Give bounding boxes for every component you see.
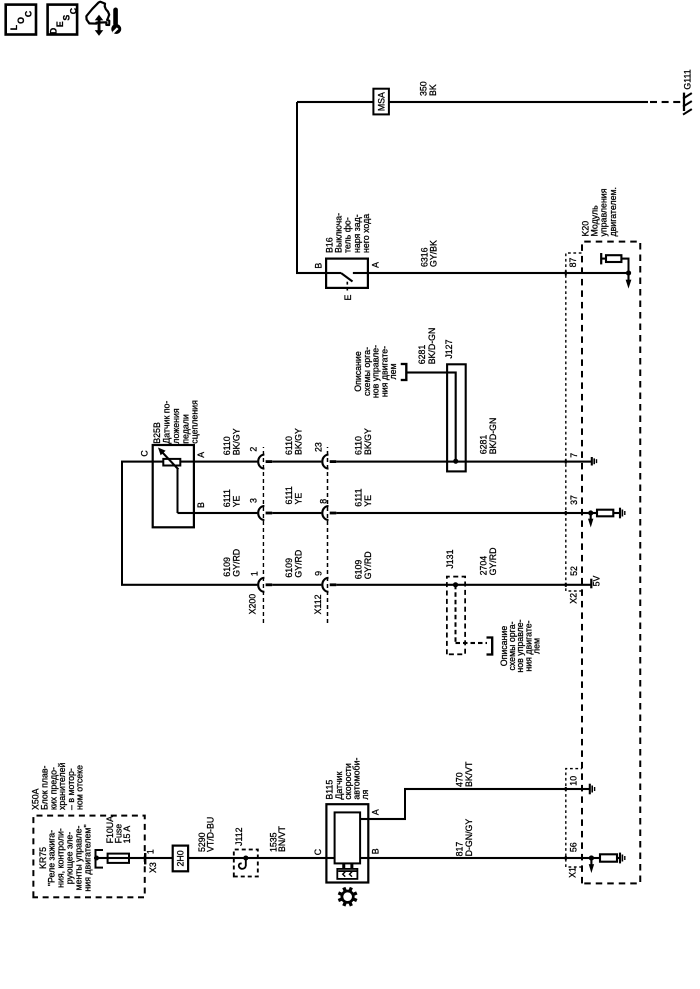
connector X112 terminal wire A [322, 455, 336, 469]
pigtail at J112 [239, 858, 246, 869]
svg-text:A: A [196, 452, 206, 458]
connector X112 dashed line [327, 447, 329, 623]
off-page bracket for 6281 [401, 364, 407, 380]
svg-text:6111: 6111 [284, 486, 294, 504]
svg-text:BK/GY: BK/GY [293, 428, 303, 455]
pin 87 tick [565, 271, 567, 276]
svg-text:6109: 6109 [284, 558, 294, 578]
note text engine controls schematic (J131) [499, 619, 542, 672]
connector X200 terminal wire B [258, 506, 272, 520]
svg-text:6110: 6110 [222, 436, 232, 455]
svg-text:23: 23 [314, 442, 324, 452]
sensor B115 outer box [326, 804, 368, 882]
svg-text:GY/RD: GY/RD [488, 548, 498, 576]
junction node in J127 [453, 459, 458, 464]
svg-text:6281: 6281 [478, 435, 488, 455]
ground symbol at pin 10 [590, 784, 595, 795]
junction node at pin 87 [626, 270, 631, 275]
connector X200 dashed line [262, 447, 264, 623]
potentiometer in B25B [163, 459, 180, 466]
svg-text:3: 3 [249, 498, 259, 503]
svg-text:S: S [62, 15, 72, 21]
sensor pickup hatched box [337, 869, 357, 879]
svg-text:J127: J127 [444, 339, 454, 358]
ground symbol at pin 37 [620, 508, 625, 519]
svg-text:E: E [55, 21, 65, 27]
svg-text:GY/RD: GY/RD [363, 551, 373, 579]
connector X112 terminal wire C [322, 578, 336, 592]
svg-text:BK/GY: BK/GY [231, 428, 241, 455]
svg-text:GY/RD: GY/RD [293, 550, 303, 578]
svg-text:Датчик по-: Датчик по- [161, 401, 171, 444]
svg-text:J131: J131 [445, 549, 455, 568]
ground symbol at pin 56 [620, 853, 625, 864]
svg-text:8: 8 [318, 499, 328, 504]
svg-text:2: 2 [249, 447, 259, 452]
component label X50A [31, 762, 85, 810]
LOC legend box [6, 5, 36, 35]
wire 6109 from B25B C around box [122, 462, 257, 585]
svg-text:VT/D-BU: VT/D-BU [206, 817, 216, 852]
pin 10 tick [565, 787, 567, 791]
pin 52 tick [565, 583, 567, 587]
svg-text:L: L [9, 24, 19, 30]
svg-text:C: C [139, 450, 149, 457]
off-page bracket for J131 branch [487, 638, 493, 655]
wire 6111 between connectors [272, 512, 321, 514]
svg-text:C: C [24, 10, 34, 17]
wire 6111 to K20 pin 37 [336, 512, 591, 514]
sensor B25B box [153, 445, 194, 527]
svg-text:5V: 5V [592, 576, 602, 587]
wire through B25B [153, 461, 194, 463]
svg-text:C: C [68, 7, 78, 14]
connector strip X2 dashed [566, 253, 582, 591]
svg-text:1: 1 [146, 849, 156, 854]
wire 350 BK dashed section [650, 101, 681, 103]
switch B16 actuator dashes [346, 282, 348, 291]
connector X200 terminal wire A [258, 455, 272, 469]
svg-text:6109: 6109 [354, 560, 364, 580]
wire 5290 from 2H0 to J112 [188, 857, 335, 859]
wire 6110 from B25B A [194, 461, 258, 463]
arrow to internal circuit at pin 37 [590, 513, 592, 520]
harness code 2H0 box [173, 846, 188, 872]
note text engine controls schematic (J127) [353, 345, 398, 398]
svg-text:YE: YE [363, 495, 373, 507]
wire 6110 between connectors [272, 461, 321, 463]
component label K20 [580, 187, 618, 236]
wiper wire to pin B [178, 469, 258, 513]
svg-text:двигателем.: двигателем. [608, 187, 618, 236]
wire 6316 GY/BK from B16 A to K20 pin 87 [368, 272, 629, 274]
svg-text:J112: J112 [234, 827, 244, 846]
ground G111 [683, 93, 692, 115]
svg-text:7: 7 [569, 453, 579, 458]
switch B16 box [326, 259, 368, 288]
5V supply bar at pin 52 [590, 579, 592, 589]
svg-text:X3: X3 [148, 862, 158, 873]
svg-text:2H0: 2H0 [175, 850, 185, 866]
pin 56 tick [565, 856, 567, 860]
junction node on bus [94, 856, 99, 861]
svg-text:лем: лем [388, 363, 398, 379]
svg-text:9: 9 [314, 571, 324, 576]
fuse label F10UA [105, 816, 132, 844]
wire 6109 to K20 pin 52 [336, 584, 591, 586]
svg-text:1: 1 [249, 571, 259, 576]
wire from fuse to 2H0 [96, 857, 173, 859]
resistor inside K20 at pin 37 [591, 512, 597, 514]
svg-text:52: 52 [569, 566, 579, 576]
svg-text:6281: 6281 [417, 345, 427, 365]
wire 6110 to K20 pin 7 [336, 461, 591, 463]
junction node in J131 [453, 582, 458, 587]
svg-text:ложения: ложения [171, 408, 181, 444]
svg-text:A: A [370, 809, 380, 815]
svg-text:YE: YE [293, 493, 303, 505]
module K20 dashed box [582, 242, 640, 884]
svg-text:D-GN/GY: D-GN/GY [464, 819, 474, 857]
svg-text:X112: X112 [313, 594, 323, 614]
dashed branch wire in J131 [456, 585, 488, 643]
svg-text:BK/D-GN: BK/D-GN [427, 328, 437, 365]
connector strip X1 dashed [566, 769, 582, 867]
svg-text:ля: ля [360, 789, 370, 799]
junction node at pin 56 [589, 855, 594, 860]
bus bar in fuse block [96, 850, 104, 868]
wire 350 BK to ground [297, 101, 648, 103]
arrow to internal circuit at pin 87 [627, 273, 629, 281]
svg-text:BN/VT: BN/VT [277, 825, 287, 852]
svg-text:15 A: 15 A [122, 826, 132, 844]
svg-text:X200: X200 [248, 594, 258, 615]
svg-text:6111: 6111 [222, 489, 232, 507]
relay KR75 label [38, 824, 93, 891]
svg-text:BK: BK [428, 84, 438, 96]
svg-text:X2: X2 [569, 593, 579, 604]
wire 6281 branch inside J127 [407, 373, 456, 462]
connector X200 terminal wire C [258, 578, 272, 592]
component label B16 [324, 213, 371, 253]
DESC legend box [48, 5, 78, 35]
svg-text:10: 10 [568, 776, 578, 786]
svg-text:B: B [370, 848, 380, 854]
wire 6109 between connectors [272, 584, 321, 586]
svg-text:D: D [48, 28, 58, 34]
resistor inside K20 at pin 87 [621, 259, 628, 273]
wire B16 feed from splice to switch [297, 102, 326, 273]
svg-text:A: A [370, 262, 380, 268]
pin 7 tick [565, 460, 567, 464]
svg-text:56: 56 [568, 842, 578, 852]
svg-text:6111: 6111 [354, 488, 364, 506]
svg-text:C: C [313, 848, 323, 855]
svg-text:MSA: MSA [376, 92, 386, 111]
fuse block X50A dashed box [33, 816, 144, 898]
connector X112 terminal wire B [322, 506, 336, 520]
svg-text:ном отсеке: ном отсеке [75, 765, 85, 810]
joint J112 dashed box [234, 850, 258, 877]
svg-text:87: 87 [568, 258, 578, 268]
svg-text:6110: 6110 [354, 436, 364, 455]
svg-text:B: B [313, 263, 323, 269]
svg-text:BK/GY: BK/GY [363, 428, 373, 455]
fuse F10UA box [108, 854, 129, 863]
svg-text:O: O [16, 17, 26, 24]
svg-text:него хода: него хода [361, 214, 371, 253]
svg-text:сцепления: сцепления [190, 400, 200, 444]
svg-text:37: 37 [569, 495, 579, 505]
component label B115 [325, 758, 371, 800]
component label B25B [152, 400, 200, 444]
svg-text:YE: YE [231, 495, 241, 507]
fuse MSA box [373, 89, 389, 115]
svg-text:2704: 2704 [478, 556, 488, 576]
svg-text:X1: X1 [567, 867, 577, 878]
switch B16 contacts [326, 273, 368, 282]
arrow to internal circuit at pin 56 [590, 858, 592, 865]
svg-text:лем: лем [532, 638, 542, 654]
svg-text:B25B: B25B [152, 422, 162, 444]
ground symbol at pin 7 [592, 457, 597, 466]
svg-text:B: B [196, 502, 206, 508]
pin 37 tick [565, 511, 567, 515]
pin X3-1 tick [144, 853, 146, 864]
wire 470 from B115 A to K20 pin 10 [360, 789, 589, 819]
junction node at pin 37 [588, 510, 593, 515]
svg-text:GY/BK: GY/BK [428, 240, 438, 267]
svg-text:350: 350 [418, 81, 428, 96]
service icon car with arrow and wrench (drawn in portrait frame) [86, 2, 121, 36]
wire 817 from B115 B to K20 pin 56 [360, 857, 591, 859]
splice J131 dashed box [447, 577, 465, 655]
svg-text:BK/D-GN: BK/D-GN [488, 418, 498, 455]
sensor pickup stems [344, 863, 352, 869]
svg-text:6110: 6110 [284, 436, 294, 455]
svg-text:ния двигателем": ния двигателем" [82, 824, 92, 891]
gear icon [338, 888, 356, 906]
svg-text:E: E [343, 295, 353, 301]
svg-text:BK/VT: BK/VT [464, 761, 474, 787]
resistor inside K20 at pin 56 [591, 857, 600, 859]
svg-text:6109: 6109 [222, 557, 232, 577]
sensor B115 inner body [335, 812, 361, 863]
svg-text:GY/RD: GY/RD [231, 549, 241, 577]
junction node at J112 [243, 856, 248, 861]
splice J127 box [447, 364, 466, 471]
svg-text:G111: G111 [683, 69, 693, 89]
